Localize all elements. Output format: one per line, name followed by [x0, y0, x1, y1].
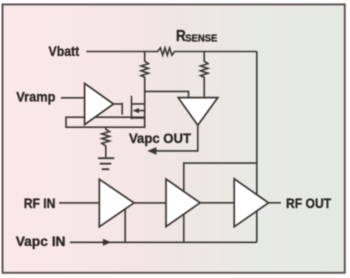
- svg-text:Vramp: Vramp: [16, 89, 55, 105]
- svg-text:RF IN: RF IN: [24, 195, 56, 211]
- svg-text:RF OUT: RF OUT: [286, 195, 332, 211]
- svg-text:Vapc IN: Vapc IN: [16, 233, 66, 249]
- svg-text:Vbatt: Vbatt: [49, 43, 80, 59]
- svg-text:Vapc OUT: Vapc OUT: [129, 130, 191, 146]
- svg-text:SENSE: SENSE: [185, 33, 217, 44]
